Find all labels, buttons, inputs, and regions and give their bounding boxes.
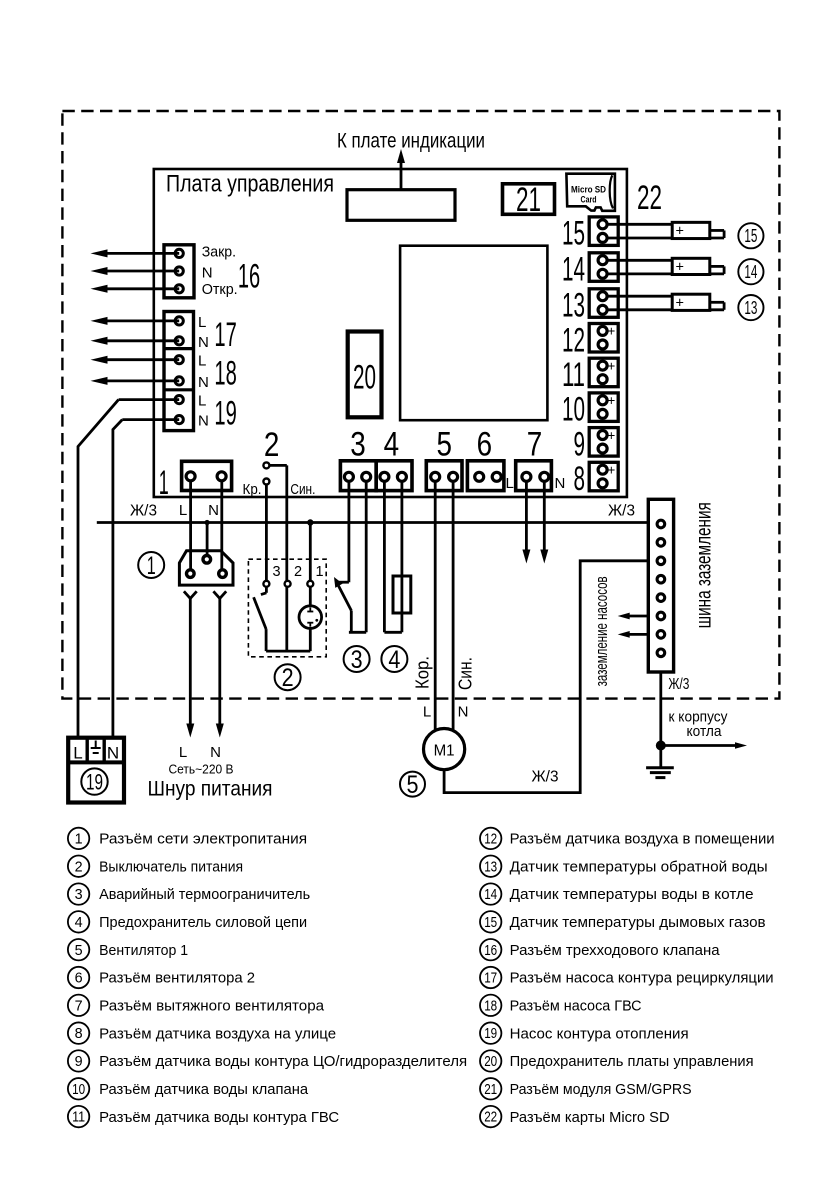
connector 7 pin labels: [506, 475, 566, 492]
label shina zazemleniya: [693, 502, 716, 628]
svg-text:Разъём насоса ГВС: Разъём насоса ГВС: [510, 998, 642, 1015]
wire L from connector 19: [78, 400, 179, 738]
connector 3 thermal limiter: [340, 461, 376, 491]
switch bottom wire: [266, 650, 310, 653]
svg-text:+: +: [607, 463, 615, 478]
svg-text:6: 6: [477, 426, 493, 464]
svg-text:L: L: [198, 314, 206, 331]
wire arrow to indication board: [397, 149, 405, 190]
wire to thermal limiter: [349, 481, 366, 632]
svg-text:котла: котла: [687, 723, 723, 740]
wire with arrow: [91, 377, 180, 385]
svg-text:Датчик температуры дымовых газ: Датчик температуры дымовых газов: [510, 914, 766, 931]
svg-text:21: 21: [516, 181, 541, 219]
svg-text:Разъём насоса контура рециркул: Разъём насоса контура рециркуляции: [510, 970, 774, 987]
wire with arrow: [91, 249, 180, 257]
label 17: [214, 316, 236, 354]
connector 6 fan 2: [467, 461, 504, 491]
neon lamp in switch: [299, 587, 322, 651]
svg-text:2: 2: [282, 664, 294, 692]
svg-text:17: 17: [484, 971, 497, 987]
wire earth to plug: [206, 523, 209, 556]
processor block: [400, 246, 547, 421]
label 22: [637, 179, 662, 217]
svg-text:Син.: Син.: [290, 481, 315, 498]
svg-text:19: 19: [86, 769, 103, 794]
junction lamp wire: [307, 519, 313, 525]
svg-text:Предохранитель силовой цепи: Предохранитель силовой цепи: [99, 914, 307, 931]
connector 12: [562, 321, 618, 359]
svg-text:12: 12: [484, 831, 497, 847]
label zazemlenie nasosov: [592, 576, 611, 686]
label k korpusu kotla: [669, 709, 728, 740]
svg-text:10: 10: [562, 391, 585, 429]
svg-text:К плате индикации: К плате индикации: [337, 130, 485, 153]
svg-text:3: 3: [75, 887, 83, 903]
svg-text:Разъём вентилятора 2: Разъём вентилятора 2: [99, 970, 255, 987]
svg-text:Разъём модуля GSM/GPRS: Разъём модуля GSM/GPRS: [510, 1081, 692, 1098]
svg-text:3: 3: [351, 646, 363, 674]
micro SD card slot 22: [566, 174, 615, 211]
sensor label 15: [738, 223, 763, 248]
legend item 15: [480, 911, 766, 932]
svg-text:Ж/3: Ж/3: [608, 503, 635, 520]
sensor label 13: [738, 295, 763, 320]
svg-text:2: 2: [294, 564, 302, 580]
svg-text:4: 4: [388, 646, 400, 674]
svg-text:11: 11: [562, 356, 585, 394]
wire lamp to earth bus: [309, 523, 312, 581]
svg-text:18: 18: [214, 355, 236, 393]
svg-text:Выключатель питания: Выключатель питания: [99, 858, 243, 875]
label 7: [527, 426, 543, 464]
legend item 12: [480, 828, 775, 849]
svg-text:+: +: [607, 324, 615, 339]
connector 2 power switch terminals: [263, 462, 269, 484]
power fuse label 4: [381, 646, 407, 674]
legend item 22: [480, 1106, 670, 1127]
svg-text:L: L: [73, 743, 82, 762]
legend item 17: [480, 967, 774, 988]
label N fan: [458, 704, 469, 721]
ground bus bar: [648, 499, 673, 672]
legend item 4: [68, 911, 307, 932]
svg-text:15: 15: [484, 915, 497, 931]
wire brown to fan: [434, 481, 437, 731]
label N cord: [210, 744, 221, 761]
svg-text:5: 5: [436, 426, 452, 464]
earth bus wire Zh/3: [97, 521, 649, 524]
svg-text:14: 14: [562, 251, 585, 289]
svg-text:шина заземления: шина заземления: [693, 502, 716, 628]
svg-text:+: +: [676, 223, 684, 239]
svg-text:13: 13: [744, 298, 757, 318]
svg-text:9: 9: [574, 425, 586, 463]
label Shnur pitaniya: [148, 778, 273, 801]
svg-text:Син.: Син.: [455, 657, 476, 690]
junction to boiler body: [656, 741, 747, 751]
connector 11: [562, 356, 618, 394]
wire with arrow: [91, 337, 180, 345]
svg-text:L: L: [506, 475, 514, 492]
wire L mains: [189, 481, 192, 571]
svg-text:14: 14: [744, 262, 757, 282]
svg-text:N: N: [210, 744, 221, 761]
legend item 3: [68, 883, 310, 904]
svg-text:Разъём трехходового клапана: Разъём трехходового клапана: [510, 942, 721, 959]
svg-text:12: 12: [562, 321, 585, 359]
wire N from connector 19: [113, 420, 179, 738]
svg-text:1: 1: [316, 564, 324, 580]
legend item 7: [68, 995, 325, 1016]
label 19: [214, 395, 236, 433]
legend item 16: [480, 939, 720, 960]
svg-text:Датчик температуры воды в котл: Датчик температуры воды в котле: [510, 886, 754, 903]
svg-text:2: 2: [75, 859, 83, 875]
svg-text:20: 20: [353, 359, 376, 397]
legend item 1: [68, 828, 307, 849]
svg-text:Шнур питания: Шнур питания: [148, 778, 273, 801]
connector block 17 18 19 pumps: [164, 312, 194, 431]
svg-text:Вентилятор 1: Вентилятор 1: [99, 942, 188, 959]
connector 17-19 pin labels: [198, 314, 209, 430]
power switch 2 dashed box: [248, 559, 326, 657]
legend item 10: [68, 1078, 309, 1099]
label 1: [159, 464, 169, 502]
svg-text:16: 16: [484, 943, 497, 959]
legend item 20: [480, 1050, 754, 1071]
svg-text:6: 6: [75, 971, 83, 987]
legend item 5: [68, 939, 188, 960]
connector 14: [562, 251, 618, 289]
connector 9: [574, 425, 619, 463]
fan earth wire: [444, 561, 648, 793]
connector 4 power fuse: [376, 461, 412, 491]
label 18: [214, 355, 236, 393]
svg-text:Разъём датчика воздуха на улиц: Разъём датчика воздуха на улице: [99, 1025, 336, 1042]
switch pin labels 3 2 1: [273, 564, 324, 580]
svg-text:Датчик температуры обратной во: Датчик температуры обратной воды: [510, 858, 768, 875]
legend item 11: [68, 1106, 339, 1127]
wire red to switch pin 3: [265, 485, 268, 581]
sensor label 14: [738, 259, 763, 284]
connector 13: [562, 287, 618, 325]
svg-text:19: 19: [214, 395, 236, 433]
label L cord: [179, 744, 187, 761]
power cord terminal block 19: [68, 738, 124, 803]
cable break symbol N: [213, 591, 226, 737]
wire to power fuse: [384, 481, 402, 632]
svg-text:L: L: [179, 502, 187, 519]
svg-text:1: 1: [75, 831, 83, 847]
svg-text:N: N: [198, 413, 209, 430]
legend item 19: [480, 1022, 689, 1043]
svg-text:заземление насосов: заземление насосов: [592, 576, 611, 686]
label K plate indikacii: [337, 130, 485, 153]
legend item 13: [480, 856, 768, 877]
svg-text:5: 5: [407, 771, 419, 799]
legend item 6: [68, 967, 255, 988]
svg-text:L: L: [179, 744, 187, 761]
svg-text:20: 20: [484, 1054, 497, 1070]
switch pins: [263, 581, 313, 587]
connector 7 output arrows: [522, 481, 548, 564]
svg-text:Разъём сети электропитания: Разъём сети электропитания: [99, 831, 307, 848]
svg-text:19: 19: [484, 1026, 497, 1042]
junction plug earth: [205, 520, 210, 525]
label 6: [477, 426, 493, 464]
svg-text:N: N: [202, 265, 213, 282]
label Kr.: [243, 481, 262, 498]
connector 15: [562, 215, 618, 253]
wire with arrow: [91, 317, 180, 325]
svg-text:N: N: [458, 704, 469, 721]
svg-text:22: 22: [484, 1110, 497, 1126]
label 16: [238, 257, 260, 295]
board title: [166, 171, 334, 198]
label L mains: [179, 502, 187, 519]
wire blue to switch pin 2: [270, 465, 287, 651]
svg-text:+: +: [607, 393, 615, 408]
svg-text:+: +: [607, 358, 615, 373]
pump ground arrows: [618, 613, 649, 638]
svg-text:Аварийный термоограничитель: Аварийный термоограничитель: [99, 886, 310, 903]
svg-text:3: 3: [350, 426, 366, 464]
switch contact and blade: [254, 587, 267, 651]
svg-text:13: 13: [484, 859, 497, 875]
svg-text:Разъём датчика воды контура ЦО: Разъём датчика воды контура ЦО/гидроразд…: [99, 1053, 467, 1070]
svg-text:Card: Card: [581, 194, 597, 204]
svg-text:Закр.: Закр.: [202, 244, 236, 261]
wire with arrow: [91, 285, 180, 293]
svg-text:14: 14: [484, 887, 497, 903]
label Zh/3 right: [608, 503, 635, 520]
svg-text:17: 17: [214, 316, 236, 354]
svg-text:М1: М1: [434, 743, 455, 760]
svg-text:Плата управления: Плата управления: [166, 171, 334, 198]
thermal limiter label 3: [344, 646, 370, 674]
ground symbol: [646, 768, 674, 778]
thermal limiter 3: [334, 577, 366, 632]
svg-text:L: L: [198, 353, 206, 370]
svg-text:N: N: [555, 475, 566, 492]
svg-text:Ж/3: Ж/3: [130, 503, 157, 520]
fan label 5: [400, 771, 425, 799]
legend item 14: [480, 883, 754, 904]
connector 7 exhaust fan: [516, 461, 552, 491]
connector 16 three-way valve: [164, 245, 194, 298]
wire N mains: [220, 481, 223, 571]
svg-text:N: N: [198, 334, 209, 351]
svg-text:Разъём карты Micro SD: Разъём карты Micro SD: [510, 1109, 670, 1126]
svg-text:21: 21: [484, 1082, 497, 1098]
svg-text:1: 1: [147, 552, 156, 580]
svg-text:7: 7: [75, 998, 83, 1014]
label 5: [436, 426, 452, 464]
svg-text:Кор.: Кор.: [412, 656, 433, 689]
svg-text:L: L: [198, 393, 206, 410]
svg-text:18: 18: [484, 998, 497, 1014]
legend item 21: [480, 1078, 692, 1099]
fuse 20 board fuse: [348, 332, 382, 418]
legend item 18: [480, 995, 642, 1016]
svg-text:Кр.: Кр.: [243, 481, 262, 498]
ground bus output wire: [659, 672, 662, 768]
svg-text:Разъём датчика воды контура ГВ: Разъём датчика воды контура ГВС: [99, 1109, 339, 1126]
svg-text:+: +: [676, 259, 684, 275]
label Zh/3 left: [130, 503, 157, 520]
svg-text:+: +: [676, 295, 684, 311]
svg-text:2: 2: [264, 426, 280, 464]
terminal block label 19: [81, 768, 107, 794]
label Sin.: [290, 481, 315, 498]
svg-text:Разъём вытяжного вентилятора: Разъём вытяжного вентилятора: [99, 998, 325, 1015]
fan M1: [424, 729, 465, 770]
legend item 2: [68, 856, 243, 877]
svg-text:11: 11: [72, 1110, 85, 1126]
svg-text:N: N: [208, 502, 219, 519]
svg-text:15: 15: [744, 226, 757, 246]
connector 1 mains: [182, 461, 232, 490]
legend item 8: [68, 1022, 336, 1043]
label Set~220V: [169, 762, 234, 777]
svg-text:16: 16: [238, 257, 260, 295]
temperature sensor 15: [607, 222, 724, 239]
cable break symbol L: [184, 591, 197, 737]
wire with arrow: [91, 267, 180, 275]
svg-text:15: 15: [562, 215, 585, 253]
temperature sensor 13: [607, 294, 724, 311]
control board outline: [154, 169, 627, 497]
label Sin. vertical: [455, 657, 476, 690]
svg-text:Ж/3: Ж/3: [532, 769, 559, 786]
svg-text:9: 9: [75, 1054, 83, 1070]
connector 16 pin labels: [202, 244, 238, 299]
switch label 2: [275, 664, 301, 692]
label Kor. vertical: [412, 656, 433, 689]
temperature sensor 14: [607, 258, 724, 275]
svg-text:8: 8: [75, 1026, 83, 1042]
power fuse 4: [393, 576, 411, 613]
connector to indication board: [347, 190, 455, 221]
svg-text:Откр.: Откр.: [202, 281, 238, 298]
svg-text:Предохранитель платы управлени: Предохранитель платы управления: [510, 1053, 754, 1070]
svg-text:13: 13: [562, 287, 585, 325]
connector 10: [562, 391, 618, 429]
legend item 9: [68, 1050, 467, 1071]
svg-text:Сеть~220 В: Сеть~220 В: [169, 762, 234, 777]
svg-text:8: 8: [574, 460, 586, 498]
svg-text:10: 10: [72, 1082, 85, 1098]
label 2: [264, 426, 280, 464]
svg-text:N: N: [107, 743, 119, 762]
svg-text:22: 22: [637, 179, 662, 217]
mains plug 1: [179, 551, 233, 585]
connector 21 GSM/GPRS: [503, 181, 555, 219]
label N mains: [208, 502, 219, 519]
svg-text:Ж/3: Ж/3: [668, 676, 689, 693]
wire blue to fan: [452, 481, 455, 731]
label Zh/3 bus output: [668, 676, 689, 693]
label L fan: [423, 704, 431, 721]
plug label 1: [138, 552, 164, 580]
svg-text:Разъём датчика воды клапана: Разъём датчика воды клапана: [99, 1081, 309, 1098]
svg-text:L: L: [423, 704, 431, 721]
svg-text:4: 4: [75, 915, 83, 931]
svg-text:N: N: [198, 374, 209, 391]
svg-text:5: 5: [75, 943, 83, 959]
label 4: [384, 426, 400, 464]
svg-text:1: 1: [159, 464, 169, 502]
connector 5 fan 1: [426, 461, 462, 491]
svg-text:3: 3: [273, 564, 281, 580]
label Zh/3 fan: [532, 769, 559, 786]
connector 8: [574, 460, 619, 498]
svg-text:7: 7: [527, 426, 543, 464]
svg-text:+: +: [607, 428, 615, 443]
svg-text:Насос контура отопления: Насос контура отопления: [510, 1025, 689, 1042]
svg-text:Micro SD: Micro SD: [571, 184, 606, 194]
svg-text:4: 4: [384, 426, 400, 464]
wire with arrow: [91, 356, 180, 364]
svg-text:Разъём датчика воздуха в помещ: Разъём датчика воздуха в помещении: [510, 831, 775, 848]
label 3: [350, 426, 366, 464]
dashed enclosure border: [62, 111, 779, 699]
